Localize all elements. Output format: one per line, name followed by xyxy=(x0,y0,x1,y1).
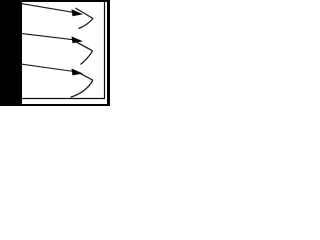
arrow 3 chevron upper arm xyxy=(75,71,93,80)
arrow 3 chevron lower arm xyxy=(71,80,93,97)
arrow 1 leader line xyxy=(22,4,74,13)
top black margin xyxy=(22,0,110,2)
arrow 1 chevron upper arm xyxy=(75,8,93,19)
white page background xyxy=(0,0,110,106)
arrow 1 chevron lower arm xyxy=(79,19,94,29)
arrow 2 leader line xyxy=(22,34,74,40)
page bottom border xyxy=(22,98,105,100)
arrow 3 leader line xyxy=(22,64,74,71)
arrow 1 leader arrowhead xyxy=(72,9,84,16)
arrow 3 leader arrowhead xyxy=(72,69,84,76)
right black margin xyxy=(107,0,110,106)
arrow 2 chevron lower arm xyxy=(81,51,93,65)
arrow 2 chevron upper arm xyxy=(75,42,92,51)
page right border xyxy=(104,2,106,99)
left black margin xyxy=(0,0,22,106)
bottom black margin xyxy=(22,104,107,106)
arrow 2 leader arrowhead xyxy=(72,36,84,43)
